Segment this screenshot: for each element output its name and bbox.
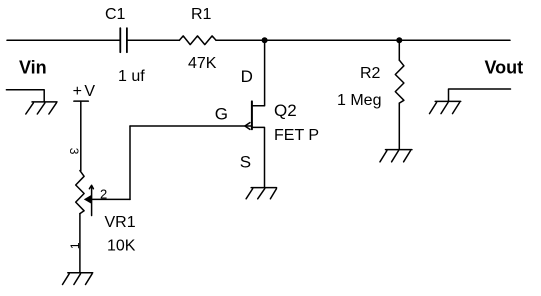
ground (Vin) [26, 102, 57, 114]
wire: source lead of Q2 [253, 127, 265, 187]
svg-text:R2: R2 [360, 65, 381, 82]
node B junction dot [396, 37, 402, 43]
svg-text:G: G [215, 105, 228, 124]
svg-text:S: S [240, 152, 251, 171]
svg-text:Vin: Vin [19, 58, 47, 78]
wire: gate of Q2 [130, 125, 251, 127]
svg-text:+ V: + V [73, 83, 96, 100]
potentiometer VR1 wiper arrow [84, 185, 94, 215]
potentiometer VR1 body (zigzag) [76, 171, 84, 214]
ground (Q2 source) [246, 188, 276, 199]
svg-text:1 uf: 1 uf [118, 68, 145, 85]
svg-text:C1: C1 [105, 6, 126, 23]
wire: +V to VR1 pin 3 [80, 101, 82, 171]
svg-text:10K: 10K [107, 238, 136, 255]
wire: C1 to R1 [127, 39, 179, 41]
transistor Q2 channel bar [251, 101, 253, 129]
svg-text:FET P: FET P [274, 127, 319, 144]
svg-text:1 Meg: 1 Meg [337, 92, 381, 109]
svg-text:Vout: Vout [485, 58, 524, 78]
wire: Vin stub [6, 90, 44, 102]
ground (R2) [380, 150, 412, 162]
resistor R1 [179, 36, 216, 45]
svg-text:2: 2 [100, 186, 107, 201]
wire: node B to right end [399, 39, 510, 41]
wire: input to C1 [7, 39, 120, 41]
+V terminal tick [74, 100, 88, 102]
node A junction dot [262, 37, 268, 43]
ground (VR1) [63, 273, 93, 285]
wire: wiper to gate riser [92, 198, 130, 200]
svg-text:1: 1 [68, 242, 82, 249]
resistor R2 body [395, 40, 404, 149]
svg-text:VR1: VR1 [105, 214, 136, 231]
svg-text:3: 3 [67, 148, 81, 155]
svg-text:D: D [241, 67, 253, 86]
svg-text:R1: R1 [191, 6, 212, 23]
ground (Vout) [430, 101, 461, 113]
wire: node A to node B [265, 39, 400, 41]
wire: R1 to node A [216, 39, 265, 41]
gate arrow of Q2 (P-channel) [245, 123, 250, 130]
wire: VR1 pin 1 to ground [79, 214, 81, 273]
svg-text:47K: 47K [188, 55, 217, 72]
svg-text:Q2: Q2 [274, 101, 297, 120]
wire: Vout stub [449, 89, 511, 101]
wire: drain lead of Q2 [253, 40, 265, 105]
wire: gate riser from VR1 wiper [129, 126, 131, 199]
capacitor C1 [120, 28, 127, 52]
